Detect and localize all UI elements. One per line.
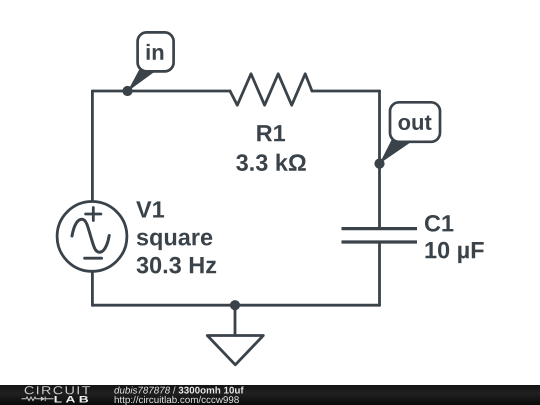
circuitlab logo LAB xyxy=(55,396,88,403)
node in callout pointer xyxy=(128,70,158,92)
wire capacitor C1 to bottom-right corner xyxy=(378,244,381,306)
wire top-right corner to capacitor C1 (node out) xyxy=(378,91,381,227)
resistor R1 xyxy=(230,74,312,105)
value 3.3 kOhm xyxy=(236,154,306,171)
ground stub wire xyxy=(234,305,237,335)
node out callout pointer xyxy=(380,140,415,164)
node in junction dot xyxy=(122,86,132,96)
wire bottom-left corner to V1 bottom xyxy=(91,273,94,306)
circuitlab logo wordmark CIRCUIT xyxy=(25,386,90,394)
node out junction dot xyxy=(374,159,384,169)
V1 minus sign xyxy=(85,257,102,260)
V1 sine wave xyxy=(72,219,109,252)
label V1 xyxy=(136,201,164,217)
value 10 uF xyxy=(425,242,483,263)
label C1 xyxy=(425,215,453,232)
wire V1 top to top-left corner xyxy=(91,91,94,200)
footer title line xyxy=(114,386,243,393)
wire bottom (ground net) xyxy=(92,304,379,307)
footer url line xyxy=(115,396,239,405)
capacitor C1 xyxy=(342,229,418,242)
voltage source V1 xyxy=(57,202,127,272)
ground xyxy=(207,336,263,365)
V1 plus sign xyxy=(86,208,101,221)
node in callout box xyxy=(138,32,174,71)
wire top-left corner to resistor R1 (node in) xyxy=(92,90,230,93)
value square xyxy=(137,233,212,251)
wire resistor R1 to top-right corner xyxy=(312,90,380,93)
node in label xyxy=(147,44,164,60)
footer bar xyxy=(0,385,540,405)
ground junction dot xyxy=(230,300,240,310)
value 30.3 Hz xyxy=(137,257,217,274)
node out label xyxy=(398,115,431,130)
circuitlab logo schematic squiggle xyxy=(22,397,54,402)
label R1 xyxy=(257,125,285,141)
node out callout box xyxy=(390,102,440,142)
